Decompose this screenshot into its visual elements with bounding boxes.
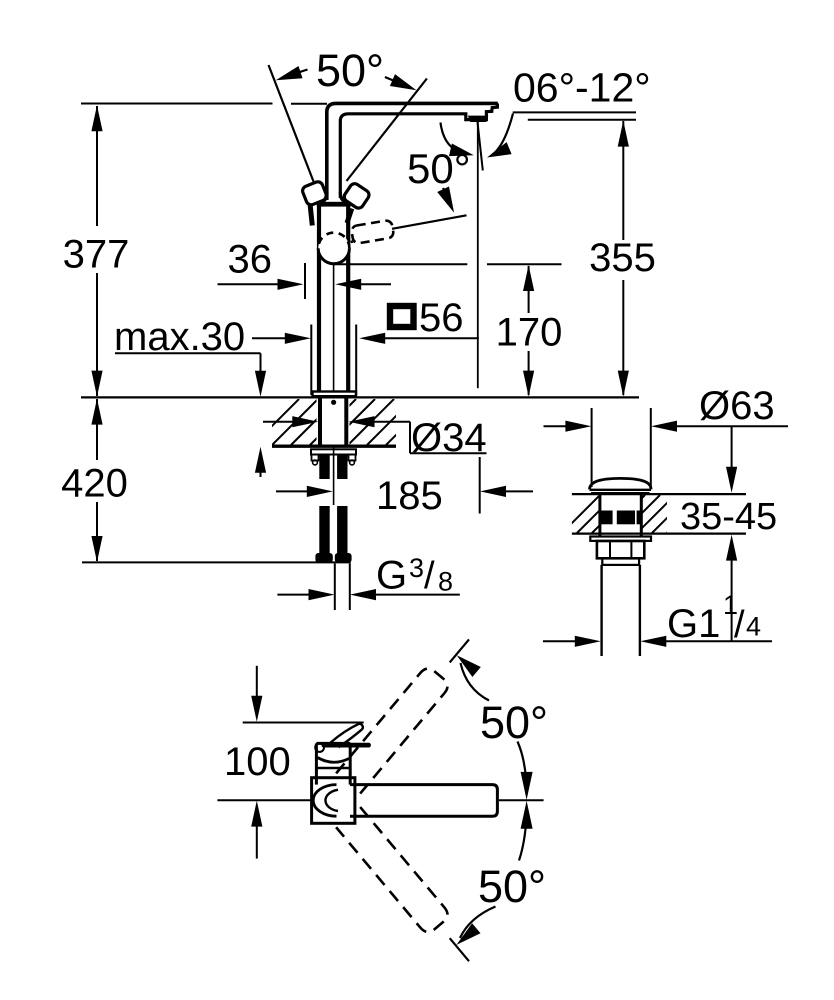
- drain cap dome: [590, 478, 652, 493]
- label max.30: [114, 315, 261, 359]
- svg-text:3: 3: [409, 553, 424, 583]
- reference line 170 datum: [333, 263, 562, 265]
- top reference line (spout height datum): [81, 103, 327, 105]
- center dot: [331, 400, 336, 405]
- dimension G1 1/4 arrows: [543, 636, 772, 647]
- handle lever dashed (neutral position): [338, 220, 394, 245]
- svg-text:185: 185: [376, 474, 443, 518]
- svg-text:/: /: [734, 604, 745, 646]
- counter cross-section hatch (main view): [253, 399, 451, 446]
- dimension Ø34 with arrows and leader: [263, 416, 487, 453]
- hose end reference line: [82, 561, 351, 563]
- svg-text:355: 355: [589, 236, 656, 280]
- cartridge ball: [318, 233, 349, 264]
- svg-text:06°-12°: 06°-12°: [513, 65, 651, 111]
- escutcheon square plate: [312, 778, 355, 824]
- drain ring: [602, 558, 639, 565]
- riser flare into body: [322, 192, 346, 202]
- mounting studs (black): [319, 455, 347, 480]
- dimension 355 vertical line with arrows: [618, 121, 629, 397]
- hose connectors: [315, 553, 351, 563]
- bottom view top reference line: [243, 722, 364, 724]
- handle lever left (solid position): [301, 180, 328, 206]
- dimension 35-45 with arrows: [726, 426, 737, 641]
- drain: Ø63 extension lines: [592, 408, 651, 487]
- svg-text:170: 170: [496, 311, 563, 355]
- svg-text:G: G: [376, 554, 407, 598]
- faucet spout (L-shaped): [327, 103, 498, 200]
- svg-text:4: 4: [746, 612, 761, 642]
- bottom view body: [316, 743, 350, 784]
- svg-text:Ø34: Ø34: [411, 416, 487, 460]
- leader arcs lower 50: [456, 807, 526, 945]
- threaded shank through counter: [320, 398, 346, 446]
- svg-text:Ø63: Ø63: [699, 384, 775, 428]
- bottom view lever (raised): [331, 724, 363, 747]
- spout top view (solid): [313, 785, 497, 817]
- dashed spout rotated +50 (up): [336, 629, 481, 793]
- swivel arc arrowheads at axis: [521, 772, 533, 829]
- center line below counter: [333, 446, 335, 505]
- label 50 deg (top, lever swing): [276, 45, 417, 96]
- svg-text:50°: 50°: [316, 45, 384, 96]
- dimension G3/8 arrows: [277, 589, 459, 600]
- label G1 1/4: [667, 590, 761, 646]
- bottom view: 100 dimension: [251, 666, 262, 859]
- drain body in counter: [600, 493, 641, 537]
- leader arcs upper 50: [457, 655, 527, 794]
- svg-text:420: 420: [61, 461, 128, 505]
- drain nut: [597, 541, 644, 558]
- dimension 56 arrows and extension lines: [252, 325, 479, 396]
- svg-text:100: 100: [224, 740, 291, 784]
- bottom view axis line: [217, 799, 543, 801]
- svg-text:377: 377: [63, 233, 130, 277]
- dimension Ø63 arrows: [544, 421, 789, 432]
- svg-text:36: 36: [228, 238, 273, 282]
- label G 3/8: [376, 553, 453, 598]
- svg-text:G1: G1: [667, 602, 720, 646]
- dimension G3/8 extension lines: [335, 564, 350, 611]
- label 06-12 deg (aerator angle): [513, 65, 651, 120]
- aerator angle arcs with arrows: [441, 114, 514, 158]
- handle lever right (solid position): [342, 182, 371, 210]
- svg-text:35-45: 35-45: [680, 496, 777, 538]
- mounting bracket: [311, 449, 356, 465]
- aerator projection line: [477, 122, 479, 388]
- svg-text:50°: 50°: [480, 697, 548, 748]
- drain slots (black): [601, 511, 641, 525]
- drain tailpipe: [602, 565, 640, 656]
- supply hoses (black): [319, 506, 347, 554]
- leader line right lever swing: [347, 79, 427, 182]
- dimension 420 vertical line with arrows: [91, 399, 102, 562]
- label 50 deg (middle, lever open angle): [407, 145, 471, 213]
- leader line neutral lever: [392, 215, 467, 229]
- svg-text:50°: 50°: [478, 861, 546, 912]
- drain counter hatch band: [562, 494, 746, 533]
- dimension 377 vertical line with arrows: [91, 105, 102, 396]
- dimension 36 extension line: [304, 263, 306, 299]
- leader line left lever swing: [269, 65, 314, 182]
- counter top line: [81, 396, 639, 398]
- dimension 185 with arrows: [276, 457, 533, 514]
- dashed spout rotated -50 (down): [336, 807, 481, 971]
- body top plate: [317, 202, 351, 207]
- svg-text:56: 56: [419, 296, 464, 340]
- dimension max.30 vertical with arrows: [255, 353, 266, 477]
- base plate: [313, 392, 357, 397]
- dimension 36 arrows: [218, 279, 392, 290]
- aerator (black): [468, 116, 488, 122]
- body center line: [333, 262, 335, 391]
- body column: [319, 207, 348, 392]
- dimension 170 vertical line with arrows: [523, 265, 534, 397]
- svg-text:8: 8: [438, 567, 453, 597]
- bottom view lever (horizontal): [315, 743, 371, 752]
- svg-text:/: /: [424, 555, 435, 597]
- stream direction line: [478, 122, 483, 171]
- drain flange: [590, 537, 651, 541]
- label square 56: [390, 296, 464, 340]
